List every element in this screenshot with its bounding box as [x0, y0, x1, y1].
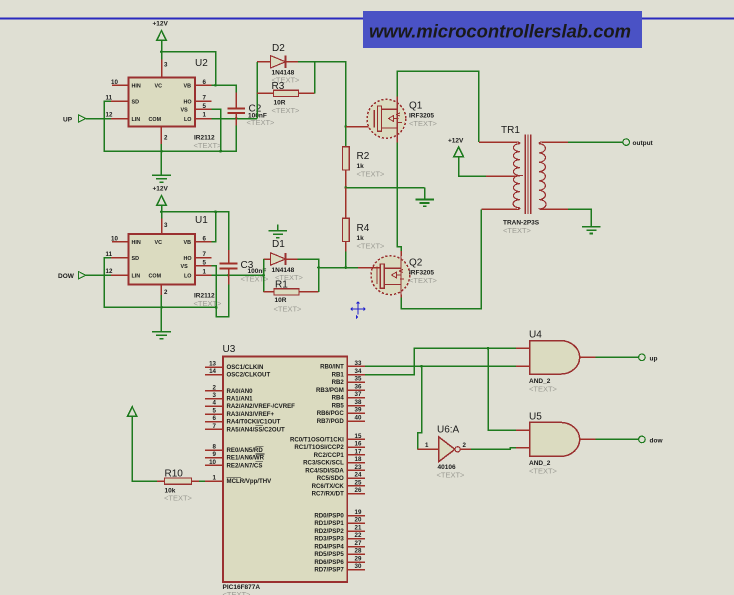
- svg-text:10: 10: [111, 236, 118, 243]
- origin marker (blue cross): [350, 301, 366, 320]
- svg-text:<TEXT>: <TEXT>: [357, 242, 386, 251]
- svg-text:MCLR/Vpp/THV: MCLR/Vpp/THV: [227, 478, 273, 485]
- U3 pin 8 RE0/AN5/RD: [205, 443, 263, 454]
- svg-text:12: 12: [106, 268, 113, 275]
- svg-text:+12V: +12V: [153, 21, 169, 28]
- pin 7 HO stub (U2): [195, 95, 212, 102]
- svg-text:<TEXT>: <TEXT>: [529, 467, 558, 476]
- terminal DOWN input: [58, 272, 111, 281]
- svg-text:U6:A: U6:A: [437, 425, 460, 436]
- svg-text:RB4: RB4: [332, 395, 345, 402]
- svg-text:D2: D2: [272, 43, 285, 54]
- svg-text:up: up: [650, 355, 658, 362]
- wire R4 bottom to Q2 gate node: [345, 251, 347, 267]
- wire D1/R1 right vertical: [298, 259, 319, 292]
- svg-text:RB3/PGM: RB3/PGM: [316, 387, 344, 394]
- wire RB1 to U4 input A: [365, 348, 516, 374]
- svg-text:RA2/AN2/VREF-/CVREF: RA2/AN2/VREF-/CVREF: [227, 403, 296, 410]
- overline RD (U3 pin 8 name): [256, 445, 264, 447]
- overline WR (U3 pin 9 name): [256, 453, 265, 455]
- IC U2 IR2112 body: [129, 58, 223, 150]
- U3 pin 4 RA2/AN2/VREF-/CVREF: [205, 400, 295, 411]
- svg-text:15: 15: [355, 433, 362, 440]
- AND gate U4: [516, 330, 596, 394]
- U3 pin 2 RA0/AN0: [205, 384, 253, 395]
- svg-text:VB: VB: [184, 240, 192, 246]
- svg-text:RC6/TX/CK: RC6/TX/CK: [312, 483, 345, 490]
- svg-text:30: 30: [355, 563, 362, 570]
- wire U5 output to dow terminal: [596, 438, 639, 440]
- svg-text:RD7/PSP7: RD7/PSP7: [314, 567, 344, 574]
- svg-text:RB6/PGC: RB6/PGC: [317, 410, 345, 417]
- U3 pin 33 RB0/INT: [320, 360, 365, 371]
- svg-text:38: 38: [355, 399, 362, 406]
- wire secondary bottom to ground: [568, 209, 591, 226]
- U3 pin 34 RB1: [332, 368, 366, 379]
- wire COM to ground: [160, 144, 162, 175]
- svg-text:VS: VS: [181, 108, 189, 114]
- overline SS (U3 pin 7 name): [256, 425, 263, 427]
- svg-text:RB2: RB2: [332, 379, 345, 386]
- svg-text:OSC2/CLKOUT: OSC2/CLKOUT: [227, 372, 271, 379]
- svg-text:34: 34: [355, 368, 362, 375]
- wire VS branch (U2): [212, 109, 221, 151]
- resistor R2 1k: [343, 147, 385, 188]
- wire U4 output to up terminal: [596, 356, 639, 358]
- svg-text:10: 10: [111, 79, 118, 86]
- svg-text:<TEXT>: <TEXT>: [529, 385, 558, 394]
- U3 pin 3 RA1/AN1: [205, 392, 253, 403]
- svg-text:14: 14: [209, 368, 216, 375]
- pin 5 VS stub (U2): [195, 103, 212, 110]
- svg-text:RA1/AN1: RA1/AN1: [227, 396, 254, 403]
- U3 pin 7 RA5/AN4/SS/C2OUT: [205, 423, 285, 434]
- U3 pin 5 RA3/AN3/VREF+: [205, 407, 275, 418]
- svg-text:<TEXT>: <TEXT>: [274, 305, 303, 314]
- svg-text:RB1: RB1: [332, 372, 345, 379]
- ground (U2 COM): [152, 175, 171, 182]
- svg-text:LO: LO: [184, 117, 192, 123]
- svg-text:OSC1/CLKIN: OSC1/CLKIN: [227, 364, 264, 371]
- overline CS (U3 pin 10 name): [256, 461, 263, 463]
- svg-text:1: 1: [203, 268, 207, 275]
- svg-text:SD: SD: [132, 99, 140, 105]
- svg-text:www.microcontrollerslab.com: www.microcontrollerslab.com: [369, 20, 631, 41]
- svg-text:RC7/RX/DT: RC7/RX/DT: [312, 491, 344, 498]
- power +12V (U1 supply): [153, 186, 169, 212]
- U3 pin 28 RD5/PSP5: [314, 548, 365, 559]
- pin 1 LO stub (U1): [195, 268, 212, 275]
- terminal output: [623, 139, 654, 147]
- svg-text:1: 1: [213, 474, 217, 481]
- svg-text:RD5/PSP5: RD5/PSP5: [314, 551, 344, 558]
- svg-text:23: 23: [355, 464, 362, 471]
- U3 pin 19 RD0/PSP0: [314, 509, 365, 520]
- U3 pin 20 RD1/PSP1: [314, 517, 365, 528]
- svg-text:U2: U2: [195, 58, 208, 69]
- ground (floating, above D1): [269, 225, 288, 238]
- svg-text:RD2/PSP2: RD2/PSP2: [314, 528, 344, 535]
- diode D1 1N4148: [264, 239, 304, 282]
- U3 pin 36 RB3/PGM: [316, 383, 365, 394]
- pin 11 SD stub (U1): [106, 251, 129, 258]
- svg-text:35: 35: [355, 376, 362, 383]
- svg-text:<TEXT>: <TEXT>: [247, 118, 276, 127]
- svg-text:24: 24: [355, 472, 362, 479]
- ground (U1 COM): [152, 332, 171, 339]
- junction U5 tap on U4 input A wire: [487, 347, 490, 350]
- U3 pin 10 RE2/AN7/CS: [205, 459, 262, 470]
- svg-text:20: 20: [355, 517, 362, 524]
- svg-text:8: 8: [213, 443, 217, 450]
- svg-text:6: 6: [203, 235, 207, 242]
- pin 7 HO stub (U1): [195, 251, 212, 258]
- svg-text:VC: VC: [155, 240, 163, 246]
- svg-text:U5: U5: [529, 412, 542, 423]
- svg-text:U3: U3: [223, 344, 236, 355]
- wire D1/R1 left vertical: [263, 259, 265, 292]
- svg-text:VB: VB: [184, 84, 192, 90]
- svg-text:RD3/PSP3: RD3/PSP3: [314, 536, 344, 543]
- svg-text:RB0/INT: RB0/INT: [320, 363, 344, 370]
- wire to Q2 gate: [319, 267, 381, 269]
- svg-text:7: 7: [203, 251, 207, 258]
- wire VS branch with jog (U1): [212, 266, 229, 317]
- U3 pin 22 RD3/PSP3: [314, 532, 365, 543]
- junction Q2 gate node: [344, 266, 347, 269]
- svg-text:LIN: LIN: [132, 274, 141, 280]
- svg-text:RD0/PSP0: RD0/PSP0: [314, 512, 344, 519]
- U3 pin 14 OSC2/CLKOUT: [205, 368, 270, 379]
- wire SD loop (U1): [104, 258, 216, 308]
- wire U6 output to U5 input B: [471, 448, 516, 449]
- svg-text:33: 33: [355, 360, 362, 367]
- junction C2 on LO wire: [235, 117, 238, 120]
- junction D1 right node: [317, 266, 320, 269]
- pin 11 SD stub (U2): [106, 95, 129, 102]
- ground (secondary): [582, 227, 601, 234]
- wire LO to D1/R1 node: [212, 274, 264, 276]
- inverter U6:A 40106: [418, 425, 471, 480]
- svg-text:D1: D1: [272, 239, 285, 250]
- junction Q1 gate: [344, 125, 347, 128]
- svg-text:RC5/SDO: RC5/SDO: [317, 475, 344, 482]
- wire D2 node to Q1 gate column: [315, 62, 346, 147]
- IC U3 PIC16F877A body: [223, 344, 348, 595]
- svg-text:27: 27: [355, 540, 362, 547]
- wire D2/R3 right vertical: [298, 62, 315, 94]
- blue separator line: [0, 18, 734, 20]
- svg-text:10: 10: [209, 459, 216, 466]
- wire mid rail to ground: [346, 187, 425, 189]
- transistor Q1 IRF3205: [367, 99, 438, 138]
- pin 6 VB stub (U1): [195, 235, 212, 242]
- wire COM to ground (U1): [160, 295, 162, 332]
- svg-text:U1: U1: [195, 215, 208, 226]
- svg-text:18: 18: [355, 456, 362, 463]
- svg-text:39: 39: [355, 407, 362, 414]
- svg-text:7: 7: [203, 95, 207, 102]
- svg-text:UP: UP: [63, 116, 73, 123]
- junction D1 left vertical: [262, 274, 265, 277]
- svg-text:SD: SD: [132, 256, 140, 262]
- U3 pin 39 RB6/PGC: [317, 407, 365, 418]
- pin 3 VC stub (U2): [162, 52, 169, 78]
- U3 pin 40 RB7/PGD: [317, 414, 365, 425]
- svg-text:5: 5: [203, 259, 207, 266]
- pin 1 LO stub (U2): [195, 112, 212, 119]
- U3 pin 16 RC1/T1OSI/CCP2: [294, 441, 365, 452]
- svg-text:HIN: HIN: [132, 84, 141, 90]
- svg-text:16: 16: [355, 441, 362, 448]
- svg-text:26: 26: [355, 487, 362, 494]
- AND gate U5: [516, 412, 596, 476]
- pin 12 LIN stub (U1): [106, 268, 129, 275]
- svg-text:output: output: [633, 140, 654, 147]
- svg-text:U4: U4: [529, 330, 542, 341]
- diode D2 1N4148: [257, 43, 300, 85]
- U3 pin 38 RB5: [332, 399, 366, 410]
- junction at VC rail: [160, 50, 163, 53]
- pin 2 COM stub (U2): [161, 127, 168, 145]
- svg-text:RC0/T1OSO/T1CKI: RC0/T1OSO/T1CKI: [290, 436, 344, 443]
- svg-text:7: 7: [213, 423, 217, 430]
- U3 pin 30 RD7/PSP7: [314, 563, 365, 574]
- svg-text:Q1: Q1: [409, 101, 423, 112]
- U3 pin 26 RC7/RX/DT: [312, 487, 366, 498]
- svg-text:19: 19: [355, 509, 362, 516]
- svg-text:4: 4: [213, 400, 217, 407]
- svg-text:R4: R4: [357, 223, 370, 234]
- svg-text:<TEXT>: <TEXT>: [437, 471, 466, 480]
- pin 2 COM stub (U1): [161, 285, 168, 297]
- wire SD loop (U2): [104, 101, 236, 151]
- svg-text:<TEXT>: <TEXT>: [194, 141, 223, 150]
- svg-text:<TEXT>: <TEXT>: [272, 106, 301, 115]
- resistor R4 1k: [343, 188, 385, 252]
- IC U1 IR2112 body: [129, 215, 223, 308]
- svg-text:VS: VS: [181, 264, 189, 270]
- svg-text:VC: VC: [155, 84, 163, 90]
- svg-text:+12V: +12V: [153, 186, 169, 193]
- resistor R1 10R: [264, 280, 319, 314]
- svg-text:COM: COM: [149, 117, 162, 123]
- junction R2/R4 mid: [344, 186, 347, 189]
- U3 pin 18 RC3/SCK/SCL: [303, 456, 365, 467]
- svg-text:RA5/AN4/SS/C2OUT: RA5/AN4/SS/C2OUT: [227, 426, 286, 433]
- svg-text:2: 2: [164, 289, 168, 296]
- svg-text:COM: COM: [149, 274, 162, 280]
- svg-text:25: 25: [355, 479, 362, 486]
- svg-text:2: 2: [164, 135, 168, 142]
- U3 pin 37 RB4: [332, 391, 366, 402]
- svg-text:RC4/SDI/SDA: RC4/SDI/SDA: [305, 467, 344, 474]
- pin 10 HIN stub (U2): [111, 79, 129, 86]
- svg-text:29: 29: [355, 555, 362, 562]
- U3 pin 25 RC6/TX/CK: [312, 479, 366, 490]
- junction COM loop U1: [160, 306, 163, 309]
- U3 pin 29 RD6/PSP6: [314, 555, 365, 566]
- svg-text:<TEXT>: <TEXT>: [223, 590, 252, 595]
- svg-text:22: 22: [355, 532, 362, 539]
- svg-text:<TEXT>: <TEXT>: [503, 226, 532, 235]
- U3 pin 21 RD2/PSP2: [314, 524, 365, 535]
- junction C3 on LO wire: [227, 274, 230, 277]
- U3 pin 35 RB2: [332, 376, 366, 387]
- terminal dow: [639, 436, 664, 444]
- U3 pin 23 RC4/SDI/SDA: [305, 464, 365, 475]
- svg-text:RE1/AN6/WR: RE1/AN6/WR: [227, 455, 265, 462]
- junction U6 tap on RB0 wire: [420, 365, 423, 368]
- svg-text:RE0/AN5/RD: RE0/AN5/RD: [227, 447, 264, 454]
- svg-text:6: 6: [203, 79, 207, 86]
- svg-text:TR1: TR1: [501, 125, 520, 136]
- svg-text:RD6/PSP6: RD6/PSP6: [314, 559, 344, 566]
- pin 5 VS stub (U1): [195, 259, 212, 266]
- svg-text:40: 40: [355, 414, 362, 421]
- wire +12V rail to VB (U2): [162, 52, 237, 93]
- U3 pin 9 RE1/AN6/WR: [205, 451, 265, 462]
- svg-text:R2: R2: [357, 151, 370, 162]
- svg-text:6: 6: [213, 415, 217, 422]
- pin 3 VC stub (U1): [162, 212, 169, 234]
- junction rail U1: [160, 211, 163, 214]
- svg-text:RB5: RB5: [332, 402, 345, 409]
- junction VS loop: [219, 150, 222, 153]
- svg-text:28: 28: [355, 548, 362, 555]
- pin 12 LIN stub (U2): [106, 112, 129, 119]
- svg-text:21: 21: [355, 524, 362, 531]
- wire Q1 source down to Q2 drain: [397, 138, 401, 256]
- svg-text:HIN: HIN: [132, 240, 141, 246]
- wire D2/R3 left vertical: [256, 62, 258, 119]
- junction VB branch U1: [214, 211, 217, 214]
- svg-text:RB7/PGD: RB7/PGD: [317, 418, 345, 425]
- capacitor C3: [220, 250, 269, 285]
- svg-text:HO: HO: [184, 99, 192, 105]
- terminal up: [639, 354, 658, 362]
- junction VS loop U1: [215, 306, 218, 309]
- svg-text:RA4/T0CKI/C1OUT: RA4/T0CKI/C1OUT: [227, 419, 281, 426]
- svg-text:RA0/AN0: RA0/AN0: [227, 388, 254, 395]
- svg-text:3: 3: [164, 222, 168, 229]
- svg-text:36: 36: [355, 383, 362, 390]
- ground (mid rail): [415, 188, 434, 207]
- wire secondary top to output terminal: [568, 141, 623, 143]
- svg-text:37: 37: [355, 391, 362, 398]
- svg-text:9: 9: [213, 451, 217, 458]
- svg-text:2: 2: [463, 442, 467, 449]
- svg-text:RC2/CCP1: RC2/CCP1: [314, 452, 345, 459]
- svg-text:5: 5: [213, 407, 217, 414]
- wire LO to D2/R3 node: [212, 118, 258, 120]
- svg-text:DOW: DOW: [58, 273, 75, 280]
- overline MCLR (U3 pin 1 name): [227, 476, 242, 478]
- wire RB0 to U4 input B: [365, 365, 516, 367]
- U3 pin 17 RC2/CCP1: [314, 448, 366, 459]
- power +12V top (U2 supply): [157, 31, 167, 52]
- svg-text:RD4/PSP4: RD4/PSP4: [314, 543, 344, 550]
- svg-text:<TEXT>: <TEXT>: [164, 494, 193, 503]
- wire Q1 gate stub: [346, 126, 378, 128]
- svg-text:<TEXT>: <TEXT>: [409, 276, 438, 285]
- svg-text:+12V: +12V: [448, 138, 464, 145]
- svg-text:<TEXT>: <TEXT>: [409, 119, 438, 128]
- terminal UP input: [63, 115, 111, 124]
- svg-text:RA3/AN3/VREF+: RA3/AN3/VREF+: [227, 411, 275, 418]
- svg-text:5: 5: [203, 103, 207, 110]
- svg-text:HO: HO: [184, 256, 192, 262]
- pin 10 HIN stub (U1): [111, 236, 129, 243]
- power arrow (R10 pull-up): [128, 407, 158, 481]
- svg-text:3: 3: [213, 392, 217, 399]
- U3 pin 24 RC5/SDO: [317, 472, 365, 483]
- U3 pin 6 RA4/T0CKI/C1OUT: [205, 415, 281, 426]
- svg-text:12: 12: [106, 112, 113, 119]
- svg-text:10R: 10R: [275, 297, 287, 304]
- wire +12V rail to VB/C3 (U1): [162, 212, 229, 250]
- junction COM loop: [160, 150, 163, 153]
- svg-text:Q2: Q2: [409, 258, 423, 269]
- pin 6 VB stub (U2): [195, 79, 212, 86]
- svg-text:13: 13: [209, 361, 216, 368]
- transformer TR1 TRAN-2P3S: [479, 125, 568, 235]
- svg-text:LO: LO: [184, 274, 192, 280]
- wire Q2 source to transformer bottom: [401, 209, 481, 308]
- power +12V mid (transformer tap): [448, 138, 486, 177]
- resistor R3 10R: [257, 81, 315, 115]
- svg-text:3: 3: [164, 62, 168, 69]
- transistor Q2 IRF3205: [371, 256, 438, 295]
- banner www.microcontrollerslab.com: [363, 11, 642, 48]
- svg-text:RC1/T1OSI/CCP2: RC1/T1OSI/CCP2: [294, 444, 344, 451]
- U3 pin 1 MCLR/Vpp/THV: [205, 474, 272, 485]
- resistor R10 10k: [157, 469, 205, 503]
- U3 pin 13 OSC1/CLKIN: [205, 361, 263, 372]
- U3 pin 15 RC0/T1OSO/T1CKI: [290, 433, 365, 444]
- wire RB0 tap down to U6 input: [418, 366, 422, 449]
- capacitor C2: [227, 93, 275, 127]
- svg-text:17: 17: [355, 448, 362, 455]
- U3 pin 27 RD4/PSP4: [314, 540, 365, 551]
- junction at VB corner: [214, 84, 217, 87]
- svg-text:RC3/SCK/SCL: RC3/SCK/SCL: [303, 460, 344, 467]
- svg-text:RD1/PSP1: RD1/PSP1: [314, 520, 344, 527]
- svg-text:dow: dow: [650, 437, 664, 444]
- svg-text:RE2/AN7/CS: RE2/AN7/CS: [227, 462, 263, 469]
- svg-text:LIN: LIN: [132, 117, 141, 123]
- svg-text:1: 1: [425, 442, 429, 449]
- wire Q1 drain up to top rail: [397, 71, 479, 142]
- svg-text:2: 2: [213, 384, 217, 391]
- svg-text:1: 1: [203, 112, 207, 119]
- wire tap down to U5 input A: [488, 348, 516, 430]
- svg-text:<TEXT>: <TEXT>: [241, 275, 270, 284]
- svg-text:<TEXT>: <TEXT>: [357, 170, 386, 179]
